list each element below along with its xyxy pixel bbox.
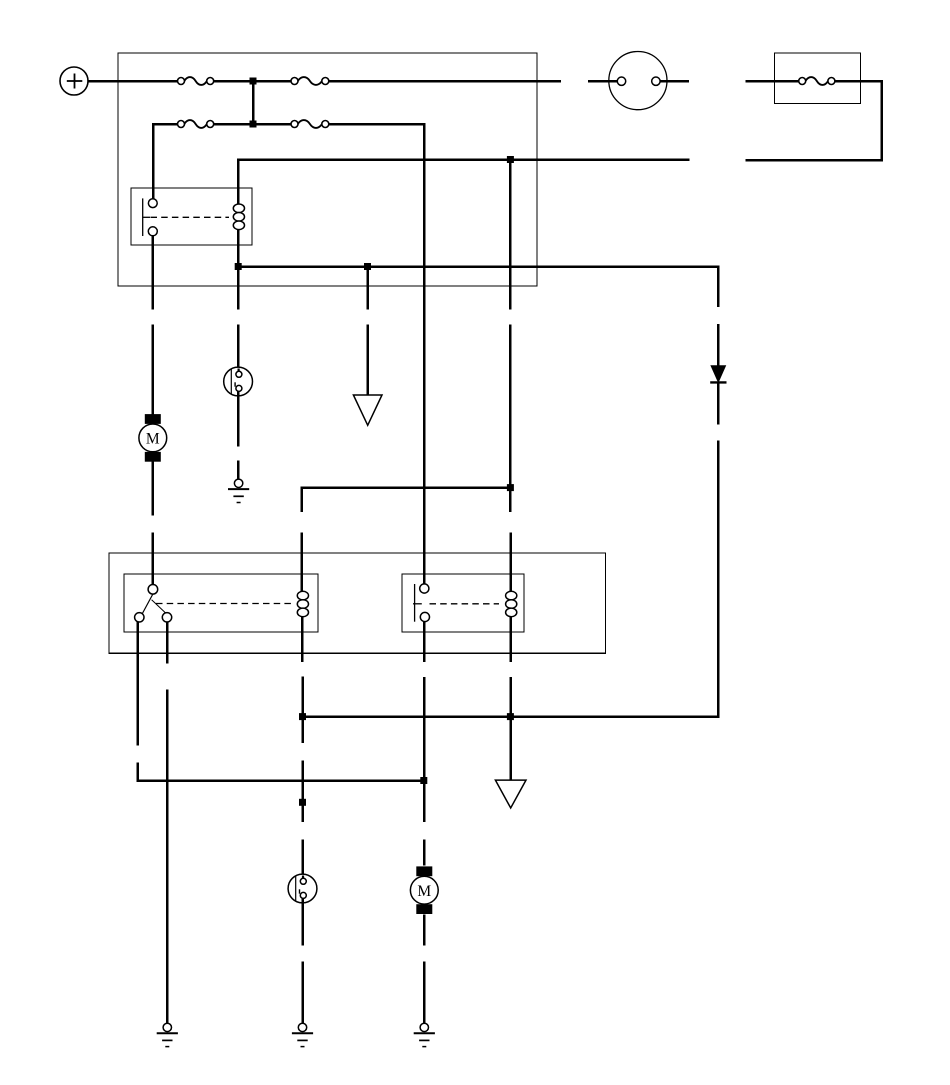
wire K3 coil top stub [509,533,512,592]
wire x510 upper segment [509,160,512,310]
node K1 coil / bus y266 [235,263,242,270]
wire into connector C1 left [588,80,618,83]
off-page arrow T1 [353,395,382,425]
wire K2 coil top stub [301,533,304,592]
wire x367 to arrow T1 [366,324,369,395]
ground G2 [157,1023,178,1046]
relay K1 switch terminal pins [148,199,157,236]
relay K1 switch contact bar [143,198,150,236]
battery positive terminal B+ [60,67,88,95]
wire F2 to connector C1 [329,80,561,83]
wire x510 down to arrow T2 [509,677,512,780]
wire to ground G1 [237,460,240,479]
motor M2 [410,866,438,914]
relay K1 coil [233,204,244,230]
relay K2 throw terminal pins [135,613,172,622]
node bus y780 / x424 [420,777,427,784]
wire x510 middle segment [509,324,512,487]
relay K3 switch terminal pins [420,584,430,622]
fuse F1 [178,77,214,85]
wire B+ to fuse F1 [88,80,178,83]
wire out of connector C1 right [659,80,689,83]
wire x302 segment with splice [301,761,304,822]
node splice x302 [299,799,306,806]
node bus y717 / x510 [507,713,514,720]
wire F4 right then down to relay K3 switch [329,124,424,584]
wire S2 down [301,899,304,946]
wire K3 switch bottom down [423,621,426,662]
relay K2 lever [139,594,167,621]
wire K3 coil bottom down [509,617,512,663]
svg-text:M: M [146,431,160,448]
wire K2 right throw down [166,622,169,664]
connector C1 terminal pins [617,77,660,85]
wire to fuse F5 [745,80,798,83]
relay K2 common terminal pin [148,585,158,595]
node junction row1/row2 feed [250,78,257,85]
fuse F5 holder box [775,53,861,103]
wire x367 to connector break [366,267,369,310]
wire F5 out loop back on y160 [745,81,881,160]
node bus y159 / x510 tap [507,156,514,163]
wire M1 down to break [152,462,155,516]
fuse F2 [291,77,329,85]
wire x238 below node [237,267,240,310]
wire to ground G4 [423,961,426,1023]
wire x302 segment with bus y717 node [301,677,304,744]
lower relay module box [109,553,606,653]
wire bus y159 to relay K1 coil [238,160,689,205]
wire into diode D1 [717,324,720,366]
wire into relay K2 common [152,533,155,585]
ground G1 [228,479,249,502]
wire x238 to switch S1 [237,324,240,371]
off-page arrow T2 [495,780,526,808]
wire K2 left throw down [136,622,139,746]
wire K2 coil bottom down [301,617,304,663]
wire bus y487 to K2 coil branch [302,488,511,513]
wire F1 to F2 [214,80,292,83]
node bus y717 / x302 [299,713,306,720]
node row2 junction [250,121,257,128]
relay K3 coil [506,591,517,616]
relay K2 box [124,574,318,632]
wire diode branch down and bus y717 [303,441,719,717]
wire node bus y266 to diode branch [238,267,718,308]
wire K1 coil bottom to node [237,230,240,267]
ground G4 [414,1023,435,1046]
wire x137 resume to bus y780 [138,763,424,781]
relay K1 actuation dashed link [151,216,230,218]
wire K1 switch out down [152,236,155,310]
node x510 / bus y487 [507,484,514,491]
motor M1 [139,414,167,462]
wire to motor M2 [423,839,426,865]
connector C1 outline [609,52,667,110]
wire x510 below node [509,488,512,513]
relay K3 actuation dashed link [430,603,500,605]
main junction/fuse box outline [118,53,537,286]
switch S2 (inline circular switch) [288,874,317,903]
fuse F3 [178,120,214,128]
ground G3 [292,1023,313,1046]
wire M2 down [423,914,426,945]
wire to switch S2 [301,839,304,877]
relay K3 switch contact bar [413,584,422,622]
node bus y266 / arrow tap [364,263,371,270]
wire row2 left drop to relay K1 switch [153,124,178,199]
relay K3 box [402,574,524,632]
fuse F5 [799,77,835,85]
wire S1 to break [237,392,240,447]
wire x424 segment through y780 node [423,677,426,822]
wire F3 to F4 [214,123,292,126]
wire junction drop to row2 [252,81,255,124]
relay K2 actuation dashed link [156,603,294,605]
wire x167 long run to ground G2 [166,690,169,1024]
switch S1 (inline circular switch) [224,367,253,396]
wire diode D1 cathode down [717,382,720,424]
diode D1 [710,366,726,383]
wire to ground G3 [301,961,304,1023]
wire x153 to motor M1 [152,324,155,414]
relay K1 box [131,188,252,245]
relay K2 coil [297,591,308,616]
svg-text:M: M [417,883,431,900]
fuse F4 [291,120,329,128]
